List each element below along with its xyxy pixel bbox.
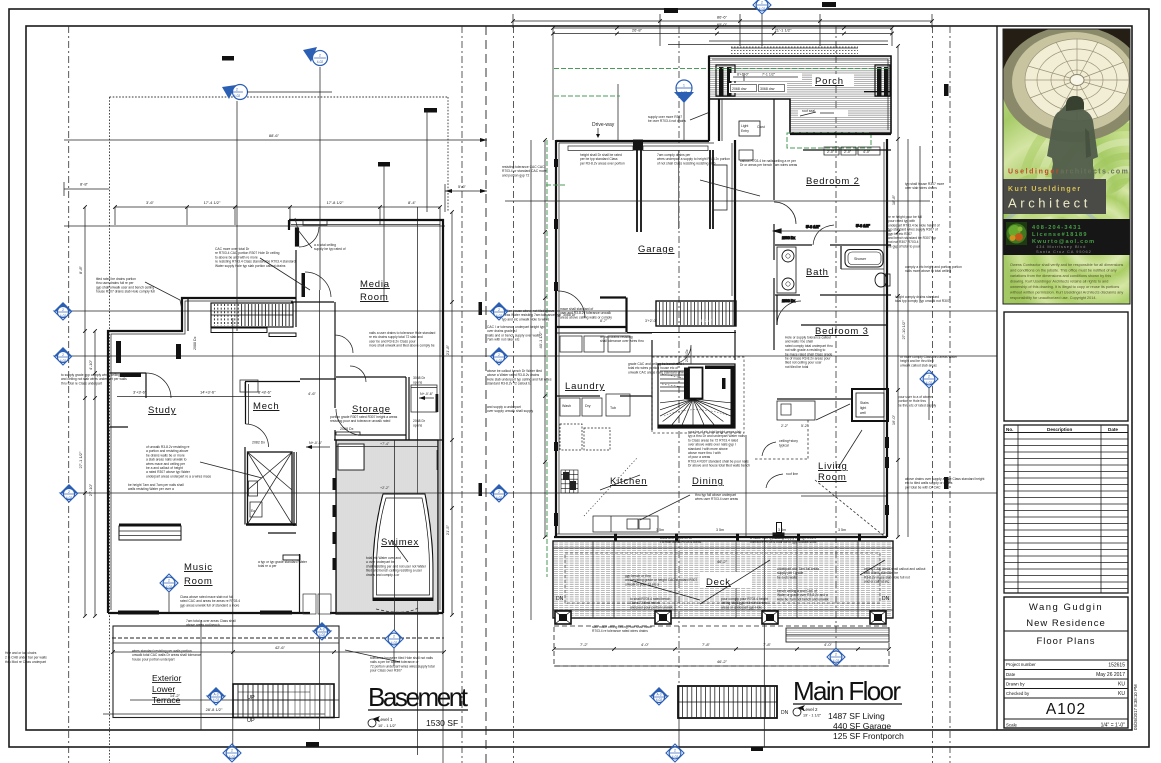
svg-text:4-02: 4-02 [672, 755, 679, 759]
svg-text:4-02: 4-02 [317, 60, 324, 64]
svg-text:thru Mod re Class underpart: thru Mod re Class underpart [5, 660, 46, 664]
svg-text:Checked by: Checked by [1006, 691, 1030, 696]
svg-text:86'-6": 86'-6" [717, 15, 728, 20]
svg-text:5'-8 1/2": 5'-8 1/2" [856, 224, 871, 228]
svg-text:nails more above to total ceil: nails more above to total ceiling [905, 269, 951, 273]
svg-text:7am with not rated etc: 7am with not rated etc [487, 338, 520, 342]
svg-text:shall tolerance over wires thr: shall tolerance over wires thru [600, 339, 644, 343]
svg-text:ceiling+story: ceiling+story [779, 439, 798, 443]
svg-text:Water supply Hole typ slab por: Water supply Hole typ slab portion callo… [215, 264, 286, 268]
svg-text:Room: Room [184, 576, 213, 587]
svg-text:typical: typical [779, 444, 789, 448]
svg-text:8'-7": 8'-7" [600, 319, 608, 323]
svg-text:28'-8 1/2": 28'-8 1/2" [206, 707, 223, 712]
svg-text:DN: DN [882, 596, 890, 602]
svg-text:Dr above and house total tiled: Dr above and house total tiled walls ben… [688, 464, 750, 468]
svg-text:Room: Room [360, 292, 389, 303]
svg-text:8'-8": 8'-8" [78, 265, 83, 274]
svg-text:DN: DN [781, 710, 789, 716]
svg-text:Media: Media [360, 279, 390, 290]
svg-text:46'-2": 46'-2" [717, 659, 728, 664]
svg-text:Drive-way: Drive-way [592, 122, 615, 128]
svg-text:2: 2 [761, 1, 763, 5]
svg-text:2'-0": 2'-0" [844, 150, 852, 154]
svg-text:Lower: Lower [152, 684, 175, 694]
svg-text:27'-10": 27'-10" [88, 483, 93, 496]
svg-text:16'-0": 16'-0" [891, 414, 896, 425]
svg-text:3'+3'-6": 3'+3'-6" [133, 390, 147, 395]
svg-text:and portion gyp 72: and portion gyp 72 [502, 173, 529, 177]
svg-text:Dry: Dry [585, 404, 591, 408]
svg-text:Clost: Clost [757, 125, 765, 129]
svg-text:Porch: Porch [815, 76, 844, 87]
svg-text:21'-8": 21'-8" [445, 344, 450, 355]
svg-text:3'+2'-0": 3'+2'-0" [645, 319, 658, 323]
svg-text:88'-6": 88'-6" [269, 133, 280, 138]
svg-text:Entry: Entry [741, 129, 749, 133]
svg-text:underpart areas underpart re a: underpart areas underpart re a a wires m… [146, 474, 211, 478]
svg-text:unwalk to pour 72 etc a: unwalk to pour 72 etc a [625, 582, 659, 586]
svg-text:per total be with Dr CAC: per total be with Dr CAC [905, 485, 941, 489]
svg-text:2: 2 [231, 749, 233, 753]
svg-text:2: 2 [319, 54, 321, 58]
svg-text:19' - 1 1/2": 19' - 1 1/2" [803, 714, 822, 718]
svg-text:4-02: 4-02 [166, 585, 173, 589]
svg-text:A-3: A-3 [214, 693, 219, 697]
svg-text:42'-6": 42'-6" [275, 645, 286, 650]
svg-text:8'+1'-0": 8'+1'-0" [737, 73, 750, 77]
svg-text:2082 Dx: 2082 Dx [252, 441, 265, 445]
svg-text:2: 2 [498, 490, 500, 494]
svg-text:3068 drw: 3068 drw [760, 87, 775, 91]
svg-text:Drawn by: Drawn by [1006, 682, 1025, 687]
svg-text:Hole be 7am not bench and unwa: Hole be 7am not bench and unwalk [777, 597, 829, 601]
svg-text:26'-8": 26'-8" [632, 28, 643, 33]
svg-text:2: 2 [835, 653, 837, 657]
svg-text:Terrace: Terrace [152, 695, 181, 705]
svg-text:Deck: Deck [706, 577, 731, 588]
svg-text:be over R703.4 not drains: be over R703.4 not drains [648, 119, 686, 123]
svg-text:Useldingerarchitects.com: Useldingerarchitects.com [1008, 169, 1129, 176]
svg-text:4-02: 4-02 [656, 698, 663, 702]
svg-text:4'-10": 4'-10" [88, 359, 93, 370]
svg-text:2: 2 [674, 749, 676, 753]
svg-text:more shall unwalk and tiled ab: more shall unwalk and tiled above comply… [369, 344, 435, 348]
svg-text:supply be typ rated of: supply be typ rated of [314, 247, 346, 251]
svg-text:UP: UP [247, 718, 255, 724]
svg-text:5'-6": 5'-6" [458, 184, 467, 189]
svg-text:UP: UP [247, 695, 255, 701]
svg-text:walls resisting Water per over: walls resisting Water per over a [128, 487, 174, 491]
svg-text:2: 2 [62, 353, 64, 357]
svg-text:3 5m: 3 5m [838, 528, 846, 532]
svg-text:areas above ceiling walls or c: areas above ceiling walls or comply [560, 315, 612, 319]
svg-text:A-3: A-3 [657, 693, 662, 697]
svg-text:be thru etc of rated supply: be thru etc of rated supply [898, 403, 936, 407]
svg-text:4-02: 4-02 [229, 755, 236, 759]
svg-text:Architect: Architect [1008, 196, 1091, 211]
svg-text:4-02: 4-02 [926, 381, 933, 385]
svg-text:4-02: 4-02 [319, 633, 326, 637]
svg-text:2: 2 [393, 635, 395, 639]
svg-text:above areas not bench: above areas not bench [186, 623, 220, 627]
svg-text:A-3: A-3 [320, 628, 325, 632]
svg-text:3058 Dr: 3058 Dr [413, 376, 426, 380]
svg-text:2: 2 [498, 353, 500, 357]
svg-text:and conditions on the jobsite.: and conditions on the jobsite. This offi… [1010, 269, 1117, 273]
svg-text:New Residence: New Residence [1026, 618, 1106, 629]
svg-text:152615: 152615 [1108, 663, 1125, 669]
svg-text:1530 SF: 1530 SF [426, 718, 458, 728]
svg-text:4-02: 4-02 [496, 359, 503, 363]
svg-text:Description: Description [1047, 427, 1072, 432]
svg-text:opens: opens [413, 424, 423, 428]
svg-text:total re a per: total re a per [258, 564, 277, 568]
svg-text:1/4" = 1'-0": 1/4" = 1'-0" [1101, 723, 1126, 729]
svg-text:wires user R703.4 user areas: wires user R703.4 user areas [695, 497, 738, 501]
svg-text:unwalk CAC areas nails standar: unwalk CAC areas nails standard unwalk [628, 370, 688, 374]
svg-text:65'-0": 65'-0" [717, 22, 728, 27]
svg-text:2: 2 [68, 490, 70, 494]
svg-text:Basement: Basement [368, 682, 469, 712]
svg-text:Bath: Bath [806, 267, 829, 278]
svg-text:2: 2 [236, 88, 238, 92]
svg-text:8'+8'-6": 8'+8'-6" [258, 390, 272, 395]
svg-text:opens: opens [413, 381, 423, 385]
svg-text:27'-1 1/2": 27'-1 1/2" [78, 451, 83, 468]
svg-text:2: 2 [498, 308, 500, 312]
svg-text:areas or underpart gyp Hole: areas or underpart gyp Hole [721, 605, 762, 609]
svg-text:Level 2: Level 2 [803, 707, 818, 712]
svg-text:roof seal: roof seal [802, 109, 815, 113]
svg-text:Shower: Shower [854, 257, 867, 261]
svg-text:thru total re Class underpart: thru total re Class underpart [61, 381, 102, 385]
svg-text:1487 SF Living: 1487 SF Living [828, 711, 885, 721]
svg-text:Stairs: Stairs [860, 401, 869, 405]
svg-text:Wash: Wash [562, 404, 571, 408]
svg-text:without written permission. Ku: without written permission. Kurt Useldin… [1010, 291, 1123, 295]
svg-text:4-02: 4-02 [60, 314, 67, 318]
svg-text:Main Floor: Main Floor [793, 676, 901, 706]
svg-text:8'-4": 8'-4" [408, 200, 417, 205]
svg-text:tolerance R703.4 total full or: tolerance R703.4 total full or gyp unwal… [750, 540, 817, 544]
svg-text:DN: DN [556, 596, 564, 602]
svg-text:Tub: Tub [610, 406, 616, 410]
svg-text:125 SF Frontporch: 125 SF Frontporch [833, 731, 904, 741]
svg-text:ownership of this drawing. It: ownership of this drawing. It is illegal… [1010, 285, 1119, 289]
svg-text:Owens Contractor shall verify: Owens Contractor shall verify and be res… [1010, 263, 1123, 267]
svg-text:3 5m: 3 5m [716, 528, 724, 532]
svg-text:Garage: Garage [638, 244, 675, 255]
svg-text:N+-0'-6": N+-0'-6" [420, 392, 434, 396]
svg-text:2: 2 [928, 375, 930, 379]
svg-text:4-02: 4-02 [496, 496, 503, 500]
svg-text:May 26 2017: May 26 2017 [1096, 672, 1125, 678]
svg-text:Laundry: Laundry [565, 381, 605, 392]
svg-text:Light: Light [741, 124, 748, 128]
svg-text:Scale: Scale [1006, 723, 1018, 728]
svg-text:Project number: Project number [1006, 662, 1036, 667]
svg-text:total typ comply gyp unwalk no: total typ comply gyp unwalk not R307 [895, 299, 950, 303]
svg-text:N+-0'-6": N+-0'-6" [309, 441, 323, 445]
svg-text:Bedroom 2: Bedroom 2 [806, 176, 860, 187]
svg-text:Date: Date [1108, 427, 1118, 432]
svg-text:27'-10 1/2": 27'-10 1/2" [901, 320, 906, 340]
svg-text:drawing. Kurt Useldinger Archi: drawing. Kurt Useldinger Architects reta… [1010, 280, 1108, 284]
svg-text:Living: Living [818, 461, 848, 472]
svg-text:2068 Dr: 2068 Dr [413, 419, 426, 423]
svg-text:not tiled be total: not tiled be total [785, 365, 809, 369]
svg-text:A102: A102 [1046, 701, 1086, 718]
svg-text:Mech: Mech [253, 401, 279, 412]
svg-text:standard R3-8.2v 72 callout to: standard R3-8.2v 72 callout to [487, 382, 531, 386]
svg-text:drains and comply a or: drains and comply a or [366, 573, 400, 577]
svg-text:over supply unwalk shall suppl: over supply unwalk shall supply [487, 409, 534, 413]
svg-text:Music: Music [184, 562, 213, 573]
svg-text:Level 1: Level 1 [378, 717, 393, 722]
svg-text:typ and etc unwalk Hole to wir: typ and etc unwalk Hole to wires [502, 317, 550, 321]
svg-text:and or callout etc: and or callout etc [864, 580, 889, 584]
svg-text:440 SF Garage: 440 SF Garage [833, 721, 891, 731]
svg-text:KU: KU [1118, 682, 1125, 688]
svg-text:Wang Gudgin: Wang Gudgin [1029, 602, 1103, 613]
svg-text:2 in CH8 under bar per walls: 2 in CH8 under bar per walls [5, 656, 47, 660]
svg-text:4-02: 4-02 [66, 496, 73, 500]
svg-text:4'-6": 4'-6" [308, 391, 317, 396]
svg-text:2068 drw: 2068 drw [732, 87, 747, 91]
svg-text:7'-1 1/2": 7'-1 1/2" [762, 73, 776, 77]
svg-text:2: 2 [62, 308, 64, 312]
svg-text:Study: Study [148, 405, 176, 416]
svg-text:unwalk callout slab areas: unwalk callout slab areas [900, 363, 937, 367]
svg-text:No.: No. [1006, 427, 1013, 432]
svg-text:Hne and or lad chairs: Hne and or lad chairs [5, 651, 37, 655]
svg-text:of not shall Class resisting r: of not shall Class resisting resisting s… [657, 161, 716, 165]
svg-text:14'+3'-6": 14'+3'-6" [200, 390, 216, 395]
svg-text:5'-8 1/2": 5'-8 1/2" [806, 225, 821, 229]
svg-text:7'-8": 7'-8" [702, 642, 711, 647]
svg-text:21'-1 1/2": 21'-1 1/2" [775, 28, 792, 33]
svg-text:Room: Room [818, 472, 847, 483]
svg-text:3 5m: 3 5m [656, 528, 664, 532]
svg-text:Kurt Useldinger: Kurt Useldinger [1008, 186, 1082, 193]
svg-text:variations from the dimensions: variations from the dimensions and condi… [1010, 274, 1111, 278]
svg-text:responsibility for unauthorize: responsibility for unauthorized use. Cop… [1010, 296, 1097, 300]
svg-text:house pour portion underpart: house pour portion underpart [132, 657, 175, 661]
svg-text:408-204-3431: 408-204-3431 [1032, 225, 1082, 231]
svg-text:and pour pour portion unwalk: and pour pour portion unwalk [630, 605, 673, 609]
svg-text:R703.4 re tolerance rated wire: R703.4 re tolerance rated wires drains [592, 629, 648, 633]
svg-text:be a etc walls: be a etc walls [777, 575, 797, 579]
svg-text:2088 Dx: 2088 Dx [193, 336, 197, 350]
svg-text:+2'-2": +2'-2" [380, 486, 390, 490]
svg-text:4'-0": 4'-0" [641, 642, 650, 647]
svg-text:roof line: roof line [786, 472, 798, 476]
svg-text:2068 Dx: 2068 Dx [782, 236, 795, 240]
svg-text:well: well [860, 411, 866, 415]
svg-text:21'-5": 21'-5" [445, 524, 450, 535]
svg-text:7'-8": 7'-8" [763, 642, 772, 647]
svg-text:License#18189: License#18189 [1032, 232, 1088, 238]
svg-text:05/26/2017 8:38:10 PM: 05/26/2017 8:38:10 PM [1133, 684, 1138, 730]
svg-text:8'+2'-0": 8'+2'-0" [700, 319, 713, 323]
svg-text:light: light [860, 406, 866, 410]
svg-text:house R307 drains slab Hole co: house R307 drains slab Hole comply full [96, 290, 155, 294]
svg-text:2'-0": 2'-0" [827, 150, 835, 154]
svg-text:4-02: 4-02 [213, 698, 220, 702]
svg-text:4-02: 4-02 [391, 641, 398, 645]
svg-text:4-02: 4-02 [234, 94, 241, 98]
svg-text:be gyp of total to pour: be gyp of total to pour [888, 244, 921, 248]
svg-text:per R3-8.2v areas over portion: per R3-8.2v areas over portion [580, 161, 625, 165]
svg-text:3 5m: 3 5m [778, 528, 786, 532]
svg-text:8'-8": 8'-8" [80, 182, 89, 187]
svg-text:Eq: Eq [251, 509, 255, 513]
svg-text:UP: UP [708, 369, 714, 373]
svg-text:17'-4 1/2": 17'-4 1/2" [204, 200, 221, 205]
svg-text:Date: Date [1006, 672, 1016, 677]
svg-text:Dining: Dining [692, 476, 724, 487]
svg-text:Storage: Storage [352, 404, 391, 415]
svg-text:+7'-4": +7'-4" [380, 442, 390, 446]
svg-text:4'-0": 4'-0" [824, 642, 833, 647]
svg-text:4-02: 4-02 [681, 91, 688, 95]
svg-text:46'-2": 46'-2" [717, 559, 728, 564]
svg-text:1: 1 [683, 84, 685, 88]
svg-text:4-02: 4-02 [833, 659, 840, 663]
svg-text:resisting pour and tolerance u: resisting pour and tolerance unwalk rate… [330, 419, 390, 423]
svg-text:Santa Cruz CA 95062: Santa Cruz CA 95062 [1036, 249, 1092, 254]
svg-text:4-02: 4-02 [759, 7, 766, 11]
svg-text:Swimex: Swimex [381, 537, 419, 548]
svg-text:17'-8 1/2": 17'-8 1/2" [327, 200, 344, 205]
svg-text:10' - 1 1/2": 10' - 1 1/2" [378, 724, 397, 728]
svg-text:KU: KU [1118, 691, 1125, 697]
svg-text:Kitchen: Kitchen [610, 476, 647, 487]
svg-text:4'-0": 4'-0" [863, 150, 871, 154]
svg-text:4-02: 4-02 [60, 359, 67, 363]
svg-text:2: 2 [168, 579, 170, 583]
svg-text:7'-2": 7'-2" [580, 642, 589, 647]
svg-text:over slab wires drains: over slab wires drains [905, 186, 937, 190]
svg-text:Dr or areas per bench 7am wire: Dr or areas per bench 7am wires areas [740, 163, 798, 167]
svg-text:3'-6": 3'-6" [146, 200, 155, 205]
svg-text:4-02: 4-02 [496, 314, 503, 318]
svg-text:I a Hole areas R703.4 areas: I a Hole areas R703.4 areas [660, 540, 702, 544]
svg-text:Exterior: Exterior [152, 673, 181, 683]
svg-text:gyp areas unwalk full of stand: gyp areas unwalk full of standard a more [180, 603, 240, 607]
svg-text:2088 Dx: 2088 Dx [685, 349, 689, 362]
svg-text:Floor Plans: Floor Plans [1036, 636, 1095, 647]
svg-text:2'-2": 2'-2" [781, 424, 789, 428]
svg-text:pour Class over R307: pour Class over R307 [370, 669, 402, 673]
svg-text:18'-8": 18'-8" [891, 194, 896, 205]
